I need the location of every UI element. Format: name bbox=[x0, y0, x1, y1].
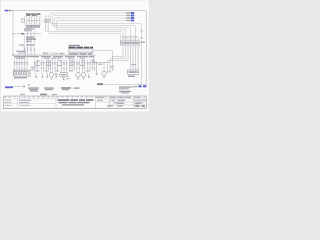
title block left column texts bbox=[5, 100, 32, 106]
device box E1 connectors bbox=[61, 63, 68, 69]
junction dot rail bbox=[12, 33, 13, 34]
footer destination arrows blue right bbox=[133, 85, 147, 87]
title block right grid horizontals bbox=[96, 99, 147, 105]
motor M1 side label bbox=[55, 74, 58, 75]
wires below X2 into connector bbox=[131, 45, 139, 70]
motor M4 bbox=[102, 71, 106, 75]
stub labels above bus bbox=[43, 53, 58, 54]
junction dot bus left bbox=[12, 54, 13, 55]
wire N bbox=[55, 18, 131, 28]
footer wire left bbox=[13, 85, 24, 87]
wire from F1 to terminal block bbox=[46, 30, 124, 41]
wire from K2 top-right going right bbox=[94, 51, 113, 63]
cable labels below bus bbox=[14, 56, 95, 59]
drawing title text bbox=[58, 99, 94, 105]
motor M1 pair bbox=[50, 59, 52, 72]
neutral rail left bbox=[13, 33, 41, 35]
page reference arrows (blue) at wire ends bbox=[126, 12, 134, 21]
feeder pair 1 bbox=[35, 59, 37, 73]
motor M1 connectors bbox=[49, 63, 53, 69]
relay group K2 label text bbox=[69, 45, 94, 49]
title block right cell texts bbox=[97, 97, 146, 107]
wire number labels above bus bbox=[16, 51, 26, 54]
feeder pair 3 connectors bbox=[45, 63, 49, 69]
relay group K2 terminal hatches bbox=[70, 49, 92, 53]
lower-right arrow drop bbox=[96, 63, 98, 76]
spare feeder 7 connectors bbox=[87, 63, 91, 69]
motor M3 pair bbox=[82, 59, 84, 72]
stub wires above bus mid bbox=[62, 53, 65, 56]
branch bus lower right bbox=[94, 55, 111, 62]
ruler number marks bbox=[5, 96, 145, 99]
spare feeder pair 7 bbox=[88, 59, 90, 73]
feeder pair 2 bbox=[41, 59, 43, 73]
wire L1 left vertical drop bbox=[12, 11, 14, 56]
wire to right distribution drop bbox=[52, 24, 142, 85]
title block right border bbox=[146, 96, 148, 109]
feeder pair 2 arrow bbox=[42, 74, 44, 79]
control wire drop 1 bbox=[24, 34, 26, 55]
spare pair 5 connectors bbox=[69, 63, 73, 69]
device E1 drain arrow bbox=[63, 77, 65, 80]
spare pair 8 bbox=[93, 59, 95, 71]
footer annotation texts above title block bbox=[5, 84, 132, 95]
junction tick lower on drop wire bbox=[140, 37, 143, 39]
junction tick upper on drop wire bbox=[140, 30, 143, 32]
label right of X2 bbox=[141, 42, 145, 43]
fuse F1 bbox=[44, 15, 47, 30]
connector X3 bbox=[128, 70, 139, 74]
arrow marker right of X1 bbox=[30, 69, 34, 71]
device box E1 wires bbox=[62, 59, 67, 72]
motor M3 bbox=[81, 73, 85, 77]
spare pair 5 bbox=[70, 59, 72, 71]
wire jog 2 from X2 bbox=[110, 45, 126, 73]
pin terminal dots bbox=[26, 25, 40, 26]
relay group K2 body bbox=[69, 49, 94, 53]
feeder pair 2 connectors bbox=[40, 63, 44, 69]
motor M1 bbox=[49, 73, 53, 77]
terminal strip X1 wires bbox=[15, 55, 28, 71]
wire branch 3 bbox=[56, 28, 131, 42]
wire L3 bbox=[53, 16, 131, 26]
footer wire label bbox=[97, 83, 103, 85]
contactor K1 contacts bbox=[27, 17, 40, 24]
motor M4 ground bbox=[103, 76, 105, 78]
auxiliary contacts on drops bbox=[23, 47, 35, 50]
title block bottom border bbox=[4, 108, 147, 110]
auxiliary labels column bbox=[26, 37, 36, 42]
feeder pair 1 connectors bbox=[34, 63, 38, 69]
title block left border bbox=[3, 96, 5, 109]
rail connector mark bbox=[21, 33, 24, 35]
jog label top bbox=[110, 66, 114, 67]
lower-right feeder drop with motor bbox=[103, 63, 105, 72]
feeder pair 3 bbox=[46, 59, 48, 73]
contactor K1 inner annotation bbox=[26, 20, 40, 22]
title block right grid verticals bbox=[110, 96, 144, 109]
motor M3 ground bbox=[82, 77, 84, 79]
title block dividers bbox=[18, 96, 96, 109]
arrow label right of X1 bbox=[31, 67, 35, 68]
spare feeder 7 arrow bbox=[88, 74, 90, 78]
terminal strip X1 label bbox=[14, 77, 27, 78]
page sheet bbox=[1, 1, 149, 112]
wire branch 2 bbox=[54, 26, 136, 42]
feeder pair 4 connectors bbox=[54, 63, 58, 69]
device box E1 bbox=[60, 73, 68, 77]
control wire drop 4 bbox=[33, 28, 35, 55]
label on branch bus bbox=[98, 64, 103, 65]
title block frame top bbox=[4, 95, 147, 97]
control wire drop 3 bbox=[30, 28, 32, 55]
wire PE bbox=[57, 21, 131, 30]
connector X3 label below bbox=[128, 76, 135, 78]
feeder pair 3 arrow bbox=[46, 74, 48, 78]
control wire drop 2 bbox=[27, 28, 29, 55]
junction dots on branch bus bbox=[97, 62, 105, 64]
terminal strip X1 plug symbols bbox=[14, 63, 29, 70]
stub label mid bbox=[59, 53, 64, 54]
coil symbol left of K1 bbox=[22, 18, 25, 22]
spare pair 6 bbox=[73, 59, 75, 71]
motor M2 pair bbox=[77, 59, 79, 72]
wire branch 4 bbox=[58, 30, 126, 42]
wire number labels below K1 bbox=[24, 28, 34, 31]
jog wire end arrows bbox=[107, 69, 114, 72]
terminal block X2 bbox=[120, 41, 139, 45]
spare pair 8 connectors bbox=[92, 63, 96, 69]
connector X3 text bbox=[129, 71, 138, 73]
labels on X2 drop wires bbox=[131, 64, 136, 65]
terminal strip X1 body bbox=[13, 70, 30, 76]
logo (blue, top-left) bbox=[5, 10, 12, 12]
aux contact labels row bbox=[26, 44, 35, 45]
title block row line left section bbox=[4, 98, 57, 100]
terminal strip X1 squares bbox=[14, 71, 28, 74]
distribution bus bbox=[13, 54, 96, 56]
title block ruler ticks bbox=[6, 96, 145, 97]
relay group K2 bottom labels bbox=[69, 53, 92, 54]
motor M2 ground bbox=[77, 77, 79, 79]
feeder pair 4 arrow bbox=[55, 74, 57, 78]
contactor group K1 label text bbox=[26, 14, 41, 16]
device E1 side label bbox=[66, 78, 70, 79]
motor M2 connectors bbox=[76, 63, 80, 69]
motor M2 bbox=[76, 73, 80, 77]
pin row below K1 bbox=[27, 25, 40, 28]
terminal block X2 text bbox=[121, 42, 138, 44]
spare pair 6 connector bbox=[73, 63, 75, 69]
stub wires above bus bbox=[45, 52, 53, 55]
wire from F2 to terminal block bbox=[48, 32, 121, 41]
feeder pair 4 bbox=[55, 59, 57, 73]
node A (feed point) bbox=[12, 10, 13, 11]
title block row line left lower bbox=[4, 103, 57, 105]
motor M3 connectors bbox=[82, 63, 86, 69]
motor M1 ground bbox=[50, 77, 52, 79]
terminal block X2 pins above bbox=[123, 38, 138, 41]
wire L2 bbox=[51, 13, 131, 24]
device box E1 text bbox=[61, 74, 67, 75]
wire L1 top horizontal bbox=[13, 11, 147, 85]
contactor group K1 enclosure (dashed) bbox=[25, 16, 42, 24]
terminal block X2 pin labels bbox=[122, 36, 138, 37]
labels between feeders row bbox=[35, 60, 95, 71]
aux contact label left bbox=[20, 44, 25, 45]
feeder pair 1 arrow bbox=[35, 74, 37, 79]
footer wire to next page bbox=[103, 84, 147, 86]
fuse F2 bbox=[47, 15, 50, 32]
wire jog 3 from X2 bbox=[108, 45, 129, 73]
wire jog 1 from X2 bbox=[113, 45, 124, 71]
